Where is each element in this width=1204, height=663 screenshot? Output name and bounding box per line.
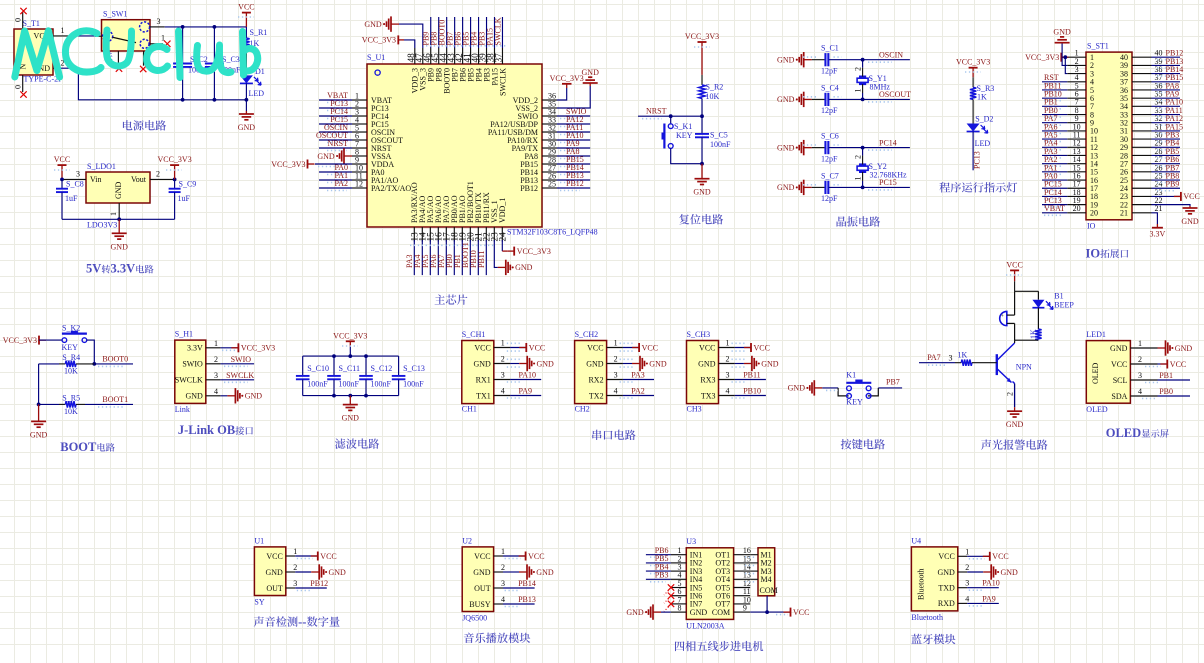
wire net PB8	[438, 17, 440, 48]
svg-text:PA9: PA9	[982, 594, 996, 603]
svg-text:GND: GND	[586, 359, 604, 368]
wire OT1 to M1	[750, 554, 758, 556]
pin 3 of S_ST1	[1067, 65, 1086, 74]
no-ERC marker	[668, 584, 674, 590]
svg-text:4: 4	[1138, 387, 1142, 396]
svg-text:S_C4: S_C4	[821, 83, 839, 92]
pin 10 of U3	[734, 595, 751, 604]
capacitor S_C12 100nF	[359, 356, 392, 396]
ground at U1 pin 47	[364, 16, 422, 48]
svg-text:VCC_3V3: VCC_3V3	[550, 74, 584, 83]
svg-text:STM32F103C8T6_LQFP48: STM32F103C8T6_LQFP48	[507, 227, 598, 236]
svg-text:3: 3	[214, 371, 218, 380]
pin 29 of U1	[542, 147, 557, 156]
junction	[700, 162, 704, 166]
pin 17 of U1	[443, 227, 453, 242]
svg-text:Link: Link	[175, 405, 190, 414]
wire net SWIO	[557, 115, 590, 117]
svg-text:KEY: KEY	[846, 398, 863, 407]
pin 9 of S_ST1	[1067, 114, 1086, 123]
ground at S_H1 pin 4	[221, 388, 263, 403]
pin 18 of U1	[451, 227, 461, 242]
connector S_CH3	[687, 330, 719, 414]
pin 30 of S_ST1	[1132, 131, 1163, 140]
svg-text:24: 24	[499, 232, 509, 242]
svg-text:8MHz: 8MHz	[870, 83, 891, 92]
no-ERC marker	[668, 593, 674, 599]
svg-text:S_U1: S_U1	[367, 53, 385, 62]
svg-text:3.3V: 3.3V	[1150, 230, 1166, 239]
pin 1 of S_LDO1	[109, 203, 119, 219]
power port VCC_3V3	[3, 336, 46, 345]
wire net PB7	[454, 17, 456, 48]
svg-text:PB9: PB9	[1166, 180, 1180, 189]
pin 2 of S_ST1	[1067, 57, 1086, 66]
svg-text:PB12: PB12	[520, 184, 538, 193]
svg-text:IO: IO	[1087, 222, 1096, 231]
wire net PB3	[646, 578, 671, 580]
wire net PB13	[557, 179, 590, 181]
svg-text:VCC_3V3: VCC_3V3	[362, 36, 396, 45]
wire net PB11	[485, 240, 487, 275]
svg-text:GND: GND	[1053, 27, 1071, 36]
pin 14 of S_ST1	[1067, 155, 1086, 164]
pin 21 of S_ST1	[1132, 204, 1163, 213]
svg-text:GND: GND	[1110, 344, 1128, 353]
svg-text:U2: U2	[462, 536, 472, 545]
title key circuit	[841, 439, 885, 449]
svg-text:TX2: TX2	[589, 391, 604, 400]
svg-text:BOOT: BOOT	[60, 440, 97, 454]
svg-text:S_R5: S_R5	[62, 393, 80, 402]
connector S_ST1 IO header	[1086, 42, 1132, 231]
pin 3 of S_CH3	[719, 371, 735, 380]
connector S_H1 J-Link	[175, 330, 206, 414]
wire net PC14	[319, 115, 352, 117]
svg-text:S_C5: S_C5	[710, 131, 728, 140]
svg-text:3: 3	[1138, 371, 1142, 380]
svg-text:10K: 10K	[706, 92, 720, 101]
pin 19 of S_ST1	[1067, 196, 1086, 205]
svg-text:25: 25	[548, 179, 556, 188]
svg-text:GND: GND	[698, 359, 716, 368]
pin 37 of S_ST1	[1132, 73, 1163, 82]
svg-text:VCC: VCC	[54, 155, 70, 164]
wire net PB4	[1152, 146, 1181, 148]
pin 0 bottom of S_T1 with no-ERC	[14, 75, 27, 98]
svg-text:VCC: VCC	[1170, 360, 1186, 369]
svg-text:S_C1: S_C1	[821, 44, 839, 53]
pin 1 of U1	[352, 91, 367, 100]
svg-text:SWCLK: SWCLK	[175, 376, 203, 385]
pin 37 of U1	[495, 48, 505, 64]
pin 1 of S_SW1 with no-ERC	[150, 34, 171, 47]
power port VCC at S_CH3 pin 1	[735, 343, 770, 352]
svg-text:RX3: RX3	[700, 375, 715, 384]
wire collector node	[1015, 323, 1039, 340]
pin 27 of S_ST1	[1132, 155, 1163, 164]
svg-text:20: 20	[1090, 209, 1098, 218]
wire net PA1	[1042, 171, 1067, 173]
svg-text:OUT: OUT	[474, 584, 491, 593]
svg-text:2: 2	[1138, 355, 1142, 364]
pin 30 of U1	[542, 139, 557, 148]
wire net PB6	[462, 17, 464, 48]
wire net BOOT1	[85, 403, 133, 405]
wire net PA7	[445, 240, 447, 275]
junction	[861, 186, 865, 190]
pin 13 of U1	[411, 227, 421, 242]
wire top rail	[303, 355, 399, 357]
svg-text:VCC: VCC	[1111, 360, 1127, 369]
svg-text:NRST: NRST	[646, 107, 667, 116]
pin 3 of S_H1	[206, 371, 221, 380]
pin 33 of S_ST1	[1132, 106, 1163, 115]
power port VCC_3V3 at S_H1 pin 1	[221, 343, 276, 352]
wire net PA2	[319, 187, 352, 189]
title program run indicator	[939, 182, 1017, 192]
wire net PA3	[1042, 154, 1067, 156]
svg-text:1: 1	[854, 177, 863, 181]
junction	[213, 98, 217, 102]
svg-text:--: --	[298, 615, 306, 629]
wire net PA0	[1042, 179, 1067, 181]
pin 3 of U2	[494, 579, 505, 588]
svg-text:GND: GND	[626, 608, 644, 617]
wire net PA8	[1152, 89, 1181, 91]
wire net PA5	[1042, 138, 1067, 140]
wire net PB10	[477, 240, 479, 275]
power port VCC_3V3 at S_ST1 pin 1	[1025, 53, 1068, 62]
pin 2 of S_T1	[53, 58, 65, 68]
wire net RST	[1042, 81, 1067, 83]
ground	[1006, 407, 1024, 429]
svg-text:RX1: RX1	[476, 375, 491, 384]
buzzer B1	[1000, 311, 1015, 325]
pin 17 of S_ST1	[1067, 180, 1086, 189]
svg-text:GND: GND	[114, 181, 123, 199]
pin 1 of S_CH1	[494, 339, 510, 348]
power port VCC at U3 COM	[784, 608, 810, 617]
svg-text:RXD: RXD	[938, 599, 955, 608]
svg-text:SWCLK: SWCLK	[493, 17, 502, 45]
wire net PA8	[557, 155, 590, 157]
junction	[117, 217, 121, 221]
pin 2 of S_CH1	[494, 355, 510, 364]
svg-text:GND: GND	[777, 183, 795, 192]
svg-text:12: 12	[355, 179, 363, 188]
wire net PA6	[437, 240, 439, 275]
svg-text:GND: GND	[185, 392, 203, 401]
pin 3 of S_CH2	[607, 371, 623, 380]
junction	[1063, 55, 1067, 59]
svg-text:32.768KHz: 32.768KHz	[870, 171, 908, 180]
svg-text:SCL: SCL	[1113, 376, 1128, 385]
IC U3 ULN2003A	[686, 537, 733, 631]
power port VCC at S_CH2 pin 1	[623, 343, 658, 352]
svg-text:4: 4	[501, 387, 505, 396]
pin 2 of U1	[352, 99, 367, 108]
wire R2 to node	[701, 99, 703, 117]
svg-text:BEEP: BEEP	[1054, 301, 1074, 310]
pin 1 of S_CH3	[719, 339, 735, 348]
no-ERC marker	[668, 601, 674, 607]
svg-text:1uF: 1uF	[178, 194, 191, 203]
svg-text:3: 3	[726, 371, 730, 380]
title sound detect	[254, 616, 298, 626]
resistor S_R4 10K	[39, 353, 95, 376]
svg-text:SY: SY	[254, 597, 264, 606]
pin 40 of U1	[471, 48, 481, 64]
wire left rail	[38, 364, 40, 405]
wire net PB5	[646, 562, 671, 564]
title serial circuit	[592, 430, 635, 440]
pin 27 of U1	[542, 163, 557, 172]
svg-text:COM: COM	[712, 608, 730, 617]
svg-text:PA2: PA2	[631, 387, 645, 396]
label guan of S_SW1	[104, 52, 113, 61]
svg-text:S_C11: S_C11	[339, 364, 361, 373]
transistor NPN	[997, 340, 1032, 382]
svg-text:3: 3	[76, 170, 80, 179]
svg-text:OLED: OLED	[1086, 405, 1108, 414]
pin 31 of S_ST1	[1132, 122, 1163, 131]
pin 35 of U1	[542, 99, 557, 108]
pin 4 of U2	[494, 595, 505, 604]
capacitor S_C7 12pF	[812, 171, 863, 203]
junction	[181, 25, 185, 29]
pin 1 of S_H1	[206, 339, 221, 348]
wire OT4 to M4	[750, 578, 758, 580]
ground at U3 pin 8	[626, 604, 671, 619]
wire net PC15	[319, 123, 352, 125]
power port VCC at S_CH1 pin 1	[510, 343, 545, 352]
wire net PA11	[1152, 114, 1181, 116]
wire net PB3	[486, 17, 488, 48]
svg-text:S_LDO1: S_LDO1	[87, 162, 116, 171]
svg-text:VCC: VCC	[1183, 192, 1199, 201]
svg-text:K1: K1	[846, 370, 856, 379]
wire net PB1	[1158, 379, 1191, 381]
svg-text:VCC_3V3: VCC_3V3	[517, 247, 551, 256]
resistor 1K	[1029, 308, 1042, 341]
pin 4 of S_H1	[206, 387, 221, 396]
svg-text:PB10: PB10	[743, 387, 761, 396]
svg-text:VCC_3V3: VCC_3V3	[271, 160, 305, 169]
svg-text:4: 4	[965, 594, 969, 603]
svg-text:PB3: PB3	[655, 571, 669, 580]
pin 7 of S_ST1	[1067, 98, 1086, 107]
svg-text:2: 2	[501, 355, 505, 364]
svg-text:OLED: OLED	[1091, 362, 1100, 384]
resistor S_R3 1K	[970, 84, 994, 102]
module U2 (JQ6500)	[462, 536, 493, 622]
pin 29 of S_ST1	[1132, 139, 1163, 148]
pin 9 of U1	[352, 155, 367, 164]
svg-text:TX1: TX1	[476, 391, 491, 400]
pin 39 of S_ST1	[1132, 57, 1163, 66]
title stepper motor	[675, 641, 763, 651]
pin 48 of U1	[407, 48, 417, 64]
wire K2 to BOOT0	[87, 340, 95, 364]
svg-text:S_T1: S_T1	[23, 19, 40, 28]
svg-text:S_H1: S_H1	[175, 330, 193, 339]
power port 3.3V at S_ST1 pin 21	[1150, 213, 1166, 239]
pin 16 of S_ST1	[1067, 171, 1086, 180]
wire T1.2 down to bottom rail	[59, 68, 247, 100]
ground at U4	[967, 564, 1018, 579]
pin 4 of U4	[958, 594, 969, 603]
ground at S_ST1 pin 22	[1152, 205, 1199, 226]
bottom pins of S_SW1 with no-ERC	[116, 51, 147, 72]
pin 4 of S_CH2	[607, 387, 623, 396]
pin 1 of LED1	[1130, 339, 1157, 348]
switch S_SW1	[102, 10, 151, 52]
svg-text:3: 3	[614, 371, 618, 380]
ground at S_CH1 pin 2	[510, 356, 554, 371]
pin 3 of U1	[352, 107, 367, 116]
wire net PB11	[735, 379, 766, 381]
ground at U1 pin 8	[317, 148, 352, 163]
svg-text:VCC: VCC	[754, 343, 770, 352]
wire T1.1 to SW1.2	[73, 35, 95, 37]
junction	[765, 610, 769, 614]
svg-text:8: 8	[678, 604, 682, 613]
svg-text:IO: IO	[1086, 246, 1101, 260]
svg-text:COM: COM	[760, 586, 778, 595]
power port VCC_3V3 at U1 pin 36	[550, 74, 584, 100]
wire net PA3	[413, 240, 415, 275]
junction	[700, 114, 704, 118]
pin 1 of S_CH2	[607, 339, 623, 348]
wire net PB12	[295, 587, 327, 589]
svg-text:VCC: VCC	[642, 343, 658, 352]
pin 32 of U1	[542, 123, 557, 132]
svg-text:2: 2	[854, 67, 863, 71]
pin 16 of U3	[734, 546, 751, 555]
svg-text:VCC_3V3: VCC_3V3	[1025, 53, 1059, 62]
LED B1 BEEP	[1032, 291, 1074, 309]
wire net NRST	[319, 147, 352, 149]
svg-text:100nF: 100nF	[710, 140, 731, 149]
pin 20 of U1	[467, 227, 477, 242]
pin 7 of U1	[352, 139, 367, 148]
svg-text:M4: M4	[761, 575, 772, 584]
svg-text:VCC: VCC	[1006, 260, 1022, 269]
ground at S_C6	[777, 140, 812, 155]
wire net PB3	[1152, 138, 1181, 140]
module U4 (Bluetooth)	[911, 536, 957, 621]
junction	[861, 146, 865, 150]
svg-text:S_R4: S_R4	[62, 353, 80, 362]
pin 34 of U1	[542, 107, 557, 116]
pin 15 of U1	[427, 227, 437, 242]
svg-text:1: 1	[214, 339, 218, 348]
wire net PA4	[421, 240, 423, 275]
junction	[37, 403, 41, 407]
svg-text:2: 2	[156, 170, 160, 179]
svg-text:2: 2	[293, 563, 297, 572]
wire net PA6	[1042, 130, 1067, 132]
pin 19 of U1	[459, 227, 469, 242]
svg-text:4: 4	[214, 387, 218, 396]
svg-text:3: 3	[293, 579, 297, 588]
wire net PA1	[319, 179, 352, 181]
svg-text:PB1: PB1	[1159, 371, 1173, 380]
pin 8 of U1	[352, 147, 367, 156]
svg-text:3: 3	[157, 17, 161, 26]
pin 46 of U1	[423, 48, 433, 64]
pin 1 of U1	[286, 547, 297, 556]
power port VCC at U2	[503, 552, 545, 561]
junction	[245, 98, 249, 102]
wire SW1.3 to VCC node	[165, 26, 247, 28]
svg-text:PA9: PA9	[519, 387, 533, 396]
ground at U2	[503, 564, 554, 579]
compile marks bottom pins	[410, 244, 494, 246]
pin 36 of S_ST1	[1132, 81, 1163, 90]
pin 25 of U1	[542, 179, 557, 188]
pin 3 of S_LDO1	[62, 170, 86, 180]
wire net PA3	[623, 379, 654, 381]
svg-text:PB14: PB14	[518, 579, 536, 588]
svg-text:Vout: Vout	[131, 175, 147, 184]
pin 2 of U3	[671, 554, 686, 563]
capacitor S_C11 100nF	[327, 356, 360, 396]
svg-text:S_CH3: S_CH3	[687, 330, 711, 339]
power port VCC	[1006, 260, 1022, 291]
svg-text:B1: B1	[1054, 292, 1063, 301]
pin 31 of U1	[542, 131, 557, 140]
pin 20 of S_ST1	[1067, 204, 1086, 213]
svg-text:4: 4	[614, 387, 618, 396]
pin 5 of U1	[352, 123, 367, 132]
wire net PA12	[1152, 122, 1181, 124]
svg-text:PA3: PA3	[631, 371, 645, 380]
svg-text:SWCLK: SWCLK	[226, 371, 254, 380]
svg-text:21: 21	[1155, 204, 1163, 213]
wire net PB6	[1152, 163, 1181, 165]
pin 8 of S_ST1	[1067, 106, 1086, 115]
svg-text:1K: 1K	[958, 351, 968, 360]
svg-text:JQ6500: JQ6500	[462, 613, 487, 622]
compile marks top pins	[426, 45, 506, 47]
svg-text:GND: GND	[690, 608, 708, 617]
svg-text:1: 1	[965, 547, 969, 556]
svg-text:GND: GND	[1175, 344, 1193, 353]
svg-text:PC15: PC15	[879, 178, 897, 187]
capacitor S_C1 12pF	[812, 44, 863, 76]
svg-text:S_SW1: S_SW1	[103, 10, 127, 19]
svg-text:VCC_3V3: VCC_3V3	[241, 344, 275, 353]
svg-text:S_CH2: S_CH2	[575, 330, 599, 339]
svg-text:GND: GND	[364, 20, 382, 29]
wire net PC13	[319, 107, 352, 109]
svg-text:GND: GND	[329, 568, 347, 577]
pin 3 of U4	[958, 579, 969, 588]
svg-text:12pF: 12pF	[821, 154, 838, 163]
junction	[213, 25, 217, 29]
pin 9 of U3	[734, 604, 751, 613]
capacitor S_C10 100nF	[296, 356, 329, 396]
svg-text:LED: LED	[249, 89, 265, 98]
svg-text:GND: GND	[1181, 217, 1199, 226]
pin 39 of U1	[479, 48, 489, 64]
svg-text:PB0: PB0	[1159, 387, 1173, 396]
wire top node	[1015, 291, 1039, 315]
power port VCC at U4	[967, 552, 1009, 561]
wire net BOOT0	[94, 363, 133, 365]
